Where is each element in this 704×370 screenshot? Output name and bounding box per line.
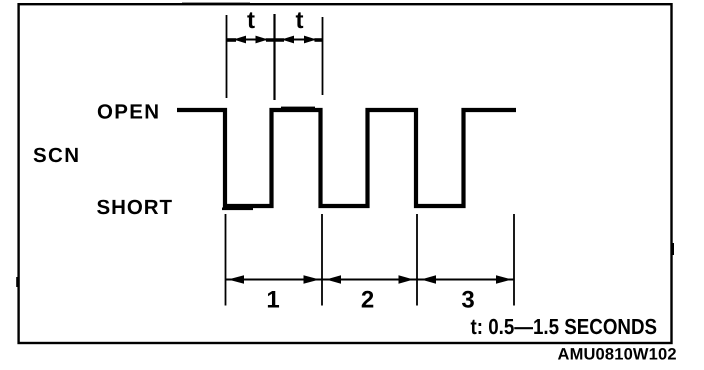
svg-text:OPEN: OPEN <box>97 101 159 124</box>
bottom extension line 4 <box>513 214 515 306</box>
scan waviness top border <box>182 3 250 5</box>
top extension line right <box>322 17 324 95</box>
arrow left of span 3 <box>421 275 436 284</box>
bottom extension line 1 <box>225 214 227 306</box>
arrow left of span 2 <box>326 275 341 284</box>
svg-text:1: 1 <box>266 287 279 314</box>
arrow right of span 3 <box>496 275 512 284</box>
scan texture second pulse top <box>281 107 315 109</box>
arrow right of t1 <box>256 36 269 44</box>
arrow right of span 1 <box>304 275 320 284</box>
arrow right of t2 <box>304 36 317 44</box>
svg-text:t: t <box>296 7 304 34</box>
top dimension line t1 <box>227 39 275 41</box>
svg-text:3: 3 <box>461 287 474 314</box>
scan blip left border <box>16 277 18 287</box>
dimension stub right t2 <box>315 38 323 42</box>
svg-text:SCN: SCN <box>33 144 79 167</box>
scan blob under first low segment <box>222 208 253 211</box>
svg-text:t: 0.5—1.5 SECONDS: t: 0.5—1.5 SECONDS <box>471 314 658 339</box>
arrow left of span 1 <box>228 275 244 284</box>
top extension line left <box>226 15 228 98</box>
top dimension line t2 <box>275 39 323 41</box>
svg-text:2: 2 <box>361 287 374 314</box>
scan blip right border <box>672 243 674 255</box>
svg-text:AMU0810W102: AMU0810W102 <box>558 346 677 364</box>
SCN waveform <box>177 110 516 206</box>
dimension stub mid t1-t2 <box>266 38 284 42</box>
arrow left of t2 <box>282 36 295 44</box>
bottom extension line 3 <box>416 214 418 306</box>
bottom dimension line <box>226 279 515 281</box>
bottom extension line 2 <box>321 214 323 306</box>
svg-text:SHORT: SHORT <box>97 196 173 219</box>
dimension stub left t1 <box>227 38 237 42</box>
arrow right of span 2 <box>399 275 414 284</box>
svg-text:t: t <box>247 7 255 34</box>
top extension line middle <box>273 14 275 100</box>
arrow left of t1 <box>234 36 247 44</box>
